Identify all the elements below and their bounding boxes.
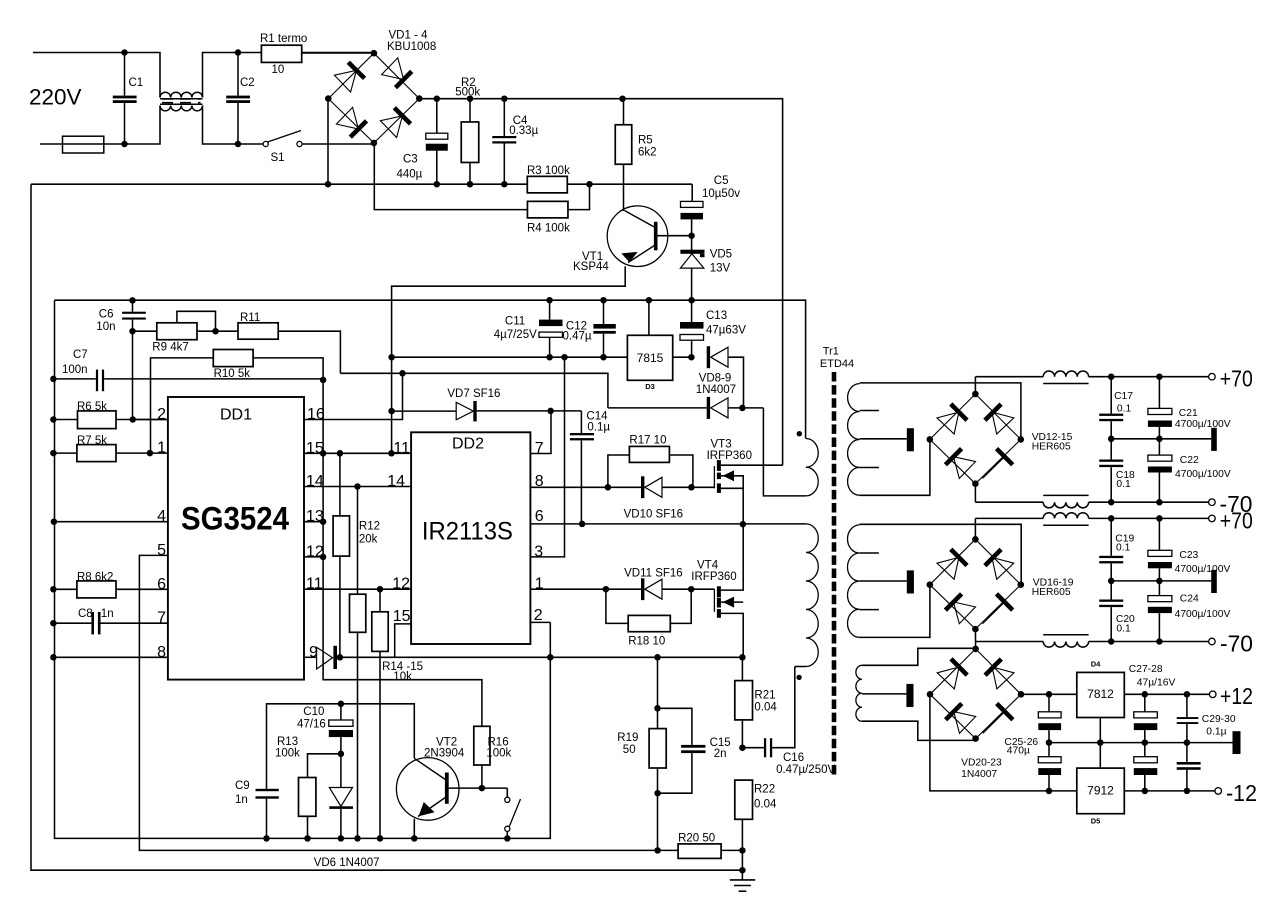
svg-text:1n: 1n [101, 608, 114, 620]
capacitor C3 440u [436, 99, 438, 134]
svg-text:C22: C22 [1180, 455, 1199, 466]
svg-text:7: 7 [157, 610, 166, 627]
resistor R7 5k [53, 452, 77, 454]
resistor R20 50 [658, 849, 679, 851]
node VT1 base [688, 232, 695, 239]
capacitor C14 0.1u [580, 411, 582, 433]
svg-text:C16: C16 [783, 752, 804, 764]
sec2 stub 2 [860, 609, 879, 611]
node R21/C16 [739, 744, 746, 751]
node bus/C8 [50, 620, 57, 627]
resistor R22 0.04 [735, 780, 753, 819]
inductor L4 [1043, 513, 1088, 519]
capacitor C26 470u [1048, 743, 1050, 757]
resistor R1 (termo) [301, 52, 374, 54]
svg-text:1: 1 [535, 576, 544, 593]
svg-text:2: 2 [534, 607, 543, 624]
resistor R19 50 [657, 657, 659, 728]
node mid/C29 [1184, 739, 1191, 746]
wire common rail [55, 300, 806, 438]
resistor R4 100k [374, 144, 527, 210]
svg-text:100k: 100k [486, 747, 511, 759]
node mid2 [1108, 578, 1115, 585]
node common/C11 [546, 297, 553, 304]
bottom rail nodes [263, 835, 270, 842]
svg-text:R3 100k: R3 100k [527, 165, 570, 177]
svg-text:KSP44: KSP44 [573, 261, 609, 273]
svg-text:4700µ/100V: 4700µ/100V [1175, 419, 1231, 430]
wire DD2 pin6 switch node [530, 523, 806, 525]
svg-text:1N4007: 1N4007 [961, 769, 997, 780]
wire AC line top [33, 53, 160, 98]
svg-text:R5: R5 [638, 135, 653, 147]
capacitor C1 [124, 53, 126, 96]
capacitor C29 0.1u [1186, 694, 1188, 717]
sec2 tap bar [907, 570, 914, 593]
node +12/C25 [1046, 691, 1053, 698]
terminal -12 [1215, 788, 1222, 795]
svg-text:4: 4 [157, 508, 166, 525]
svg-text:VD8-9: VD8-9 [699, 372, 732, 384]
svg-text:0.33µ: 0.33µ [509, 125, 538, 137]
node p14/R14 [354, 483, 361, 490]
node mid/7812 [1097, 739, 1104, 746]
svg-text:+12: +12 [1220, 683, 1253, 709]
node common/C12 [600, 297, 607, 304]
node -70b/C20 [1108, 638, 1115, 645]
transistor VT2 2N3904 [396, 758, 459, 821]
wire frame bottom [31, 184, 742, 870]
svg-text:C1: C1 [129, 77, 144, 89]
node R19/C15 top [654, 705, 661, 712]
svg-text:C17: C17 [1114, 391, 1133, 402]
wire pin12 [304, 556, 323, 558]
diode VD6b vertical [340, 754, 342, 788]
svg-text:D4: D4 [1091, 660, 1101, 669]
wire mid rail 2 [1111, 580, 1211, 582]
svg-text:R17 10: R17 10 [629, 434, 666, 446]
wire +70 rail 1 [974, 377, 976, 395]
diode VD8 1N4007 [707, 346, 710, 368]
svg-text:R7 5k: R7 5k [77, 435, 107, 447]
node R19/C15 bottom [654, 790, 661, 797]
node +70a/C21 [1156, 373, 1163, 380]
node C7/R10 net [320, 377, 327, 384]
svg-text:11: 11 [306, 576, 323, 593]
svg-text:0.1µ: 0.1µ [587, 421, 610, 433]
svg-text:13V: 13V [710, 262, 731, 274]
node bus/C7 [50, 376, 57, 383]
resistor R9 4k7 (trimmer) [133, 330, 157, 332]
wire mid rail 1 [1111, 438, 1211, 440]
svg-text:C5: C5 [714, 175, 729, 187]
sec2 stub 1 [860, 552, 879, 554]
resistor R15 10k [379, 589, 381, 612]
inductor L3 [1043, 502, 1088, 508]
svg-text:10n: 10n [96, 321, 115, 333]
capacitor C18 0.1 [1110, 439, 1112, 460]
node VD11/R18L [603, 586, 610, 593]
svg-text:VD7 SF16: VD7 SF16 [447, 388, 500, 400]
svg-text:C9: C9 [235, 780, 250, 792]
resistor R18 10 [606, 589, 628, 623]
inductor L5 [1043, 642, 1088, 648]
svg-text:R1 termo: R1 termo [260, 33, 307, 45]
svg-text:1N4007: 1N4007 [696, 384, 736, 396]
ground bar out1 [1211, 428, 1217, 451]
sec2 tail bottom [860, 585, 930, 638]
node +15/VT1 emitter [388, 354, 395, 361]
sec2 tail top [860, 524, 1022, 584]
wire DD2 pin3 up [530, 357, 564, 557]
wire left bus [55, 300, 551, 838]
svg-text:4µ7/25V: 4µ7/25V [494, 329, 537, 341]
node VD10/R17R/VT3gate [688, 484, 695, 491]
node frame/ground [739, 867, 746, 874]
node +15/pin3 DD2 [561, 354, 568, 361]
svg-text:R22: R22 [754, 784, 775, 796]
sec1 tail bottom [860, 439, 930, 495]
svg-text:100k: 100k [275, 747, 300, 759]
svg-text:VD11 SF16: VD11 SF16 [624, 568, 683, 580]
capacitor C30 0.1u [1186, 743, 1188, 762]
Tr1 primary main winding [806, 524, 818, 667]
node +12/C27 [1142, 691, 1149, 698]
node switch node [740, 521, 747, 528]
choke L1 winding bottom [160, 106, 203, 111]
wire DD2 pin15 down [395, 624, 411, 657]
node mid1 [1108, 436, 1115, 443]
node p11/R15 [377, 586, 384, 593]
svg-text:IR2113S: IR2113S [422, 518, 513, 546]
node +15/C11 [546, 354, 553, 361]
wire pin5 [139, 555, 657, 850]
wire pin2 [133, 419, 168, 421]
node base/R16 [479, 785, 486, 792]
svg-text:500k: 500k [455, 87, 480, 99]
wire C6 to R6/pin2 [132, 331, 134, 419]
svg-text:DD1: DD1 [220, 407, 252, 424]
svg-text:3: 3 [534, 543, 543, 560]
capacitor C8 1n [53, 622, 91, 624]
svg-text:2N3904: 2N3904 [424, 747, 465, 759]
svg-text:47µ63V: 47µ63V [706, 325, 746, 337]
node VD7 line left [388, 408, 395, 415]
resistor R13 100k [308, 754, 341, 778]
wire AC top over choke [203, 53, 375, 98]
node mid/C27 [1142, 739, 1149, 746]
svg-text:D5: D5 [1091, 817, 1101, 826]
svg-text:4700µ/100V: 4700µ/100V [1175, 469, 1231, 480]
node -70a/C22 [1156, 499, 1163, 506]
svg-text:0.1µ: 0.1µ [1206, 727, 1226, 738]
node HV+/R2 [467, 95, 474, 102]
capacitor C10 47/16 [340, 704, 342, 720]
svg-text:1: 1 [157, 440, 166, 457]
capacitor C2 [237, 53, 239, 96]
regulator D4 7812 [1077, 672, 1125, 717]
wire DD2 pin2 down [530, 621, 550, 623]
svg-text:ETD44: ETD44 [820, 358, 854, 370]
Tr1 secondary winding 3 [856, 665, 862, 721]
capacitor C27 47u/16V [1144, 694, 1146, 712]
svg-text:C8: C8 [78, 608, 93, 620]
transistor VT4 IRFP360 [713, 589, 715, 612]
svg-text:6k2: 6k2 [638, 147, 657, 159]
sec3 tail top [862, 648, 976, 665]
wire 7812 gnd pin [1099, 718, 1101, 743]
svg-text:R21: R21 [754, 690, 775, 702]
node 657/R19 [654, 654, 661, 661]
resistor R5 6k2 [623, 99, 625, 125]
node bus/R6 [50, 416, 57, 423]
svg-text:8: 8 [157, 644, 166, 661]
node bus/R7 [50, 450, 57, 457]
wire pin4 [54, 521, 168, 523]
ground symbol [741, 870, 743, 880]
node +70a/C17 [1108, 373, 1115, 380]
svg-text:C29-30: C29-30 [1202, 714, 1236, 725]
choke L1 core [162, 98, 201, 100]
svg-text:0.04: 0.04 [754, 701, 777, 713]
regulator D5 7912 [1077, 768, 1125, 814]
svg-text:R8 6k2: R8 6k2 [77, 572, 113, 584]
svg-text:7815: 7815 [637, 351, 664, 365]
svg-text:VD6 1N4007: VD6 1N4007 [314, 857, 380, 869]
terminal +12 [1209, 691, 1216, 698]
svg-text:SG3524: SG3524 [181, 501, 289, 537]
svg-text:2: 2 [157, 406, 166, 423]
svg-text:R9 4k7: R9 4k7 [152, 342, 188, 354]
node bus/pin8 [50, 654, 57, 661]
node bus/R8 [50, 586, 57, 593]
svg-text:R18 10: R18 10 [628, 636, 665, 648]
svg-text:0.04: 0.04 [754, 799, 777, 811]
wire R11 feedback line [340, 373, 608, 408]
svg-text:7812: 7812 [1087, 687, 1114, 701]
svg-text:12: 12 [392, 576, 410, 593]
sec3 tap bar [906, 684, 913, 707]
svg-text:6: 6 [535, 508, 544, 525]
wire pin8 [53, 656, 167, 658]
node -70b/C24 [1156, 638, 1163, 645]
wire HV+ rail [419, 99, 782, 466]
capacitor C15 2n [658, 708, 692, 745]
sec1 center tap [860, 438, 907, 440]
node mid2/C23 [1156, 578, 1163, 585]
resistor R10 5k [213, 350, 253, 367]
capacitor C6 10n [132, 300, 134, 311]
capacitor C11 4u7/25V [549, 300, 551, 319]
node +12/C29 [1184, 691, 1191, 698]
svg-text:C24: C24 [1180, 594, 1199, 605]
svg-text:11: 11 [393, 440, 410, 457]
svg-text:Tr1: Tr1 [823, 346, 839, 358]
capacitor C5 10u50v [691, 184, 693, 201]
svg-text:2n: 2n [714, 748, 727, 760]
node HV+/C3 [434, 95, 441, 102]
inductor L2 [1043, 371, 1088, 377]
choke L1 winding top [160, 92, 203, 97]
resistor R6 5k [53, 419, 77, 421]
svg-text:220V: 220V [29, 85, 82, 110]
node pin9/R12 [337, 654, 344, 661]
svg-text:R13: R13 [277, 736, 298, 748]
node 657/DD2pin2 [547, 654, 554, 661]
svg-text:C7: C7 [73, 349, 88, 361]
wire AC line bottom [40, 106, 160, 145]
capacitor C25 470u [1048, 694, 1050, 712]
svg-text:VD10 SF16: VD10 SF16 [624, 508, 683, 520]
node 7815 in / VD8 / C13 [688, 354, 695, 361]
resistor R11 [238, 323, 278, 339]
svg-text:47/16: 47/16 [297, 719, 326, 731]
node 657/R21 [739, 654, 746, 661]
wire AC bottom over choke [203, 106, 266, 145]
wire pin14 to DD2 pin14 [304, 486, 411, 488]
capacitor C20 0.1 [1110, 581, 1112, 600]
sec3 center tap [862, 693, 907, 695]
svg-text:0.1: 0.1 [1117, 403, 1132, 414]
resistor R14 10k [357, 487, 359, 595]
svg-text:0.1: 0.1 [1116, 623, 1131, 634]
wire ground stub [741, 850, 743, 870]
svg-text:VT3: VT3 [711, 438, 732, 450]
capacitor C28 47u/16V [1144, 743, 1146, 757]
phase dot primary [796, 675, 801, 680]
wire +12 rail [1020, 693, 1076, 695]
bridge rectifier VD16-19 HER605 [930, 539, 976, 584]
node common/VD5/C13 [688, 297, 695, 304]
svg-text:10µ50v: 10µ50v [702, 188, 740, 200]
node -12/C30 [1184, 788, 1191, 795]
svg-text:R11: R11 [240, 312, 260, 324]
svg-text:C3: C3 [403, 153, 418, 165]
svg-text:10k: 10k [393, 671, 412, 683]
svg-text:VD20-23: VD20-23 [961, 758, 1002, 769]
svg-text:HER605: HER605 [1032, 442, 1071, 453]
svg-text:7: 7 [535, 440, 544, 457]
node AC bottom / C2 [235, 141, 242, 148]
sec1 tail top [860, 383, 1021, 440]
capacitor C4 0.33u [503, 99, 505, 136]
capacitor C16 0.47u/250V [742, 747, 764, 749]
node +15/C12 [600, 354, 607, 361]
capacitor C7 100n [53, 378, 96, 380]
svg-text:-70: -70 [1220, 630, 1253, 656]
capacitor C24 4700u/100V [1158, 581, 1160, 596]
svg-text:16: 16 [307, 406, 325, 423]
wire pin11 to DD2 pin12 [304, 588, 411, 590]
svg-text:+70: +70 [1220, 507, 1253, 533]
wire DD2 pin8 line [530, 486, 641, 488]
diode VD6 at pin9 [304, 656, 317, 658]
node HV-/C4 [501, 181, 508, 188]
sec1 stub 2 [860, 467, 879, 469]
node R3/R4/C5 [586, 181, 593, 188]
resistor R8 6k2 [53, 588, 77, 590]
svg-text:R12: R12 [359, 521, 380, 533]
svg-text:C6: C6 [99, 308, 114, 320]
sec1 tap bar [907, 428, 914, 451]
svg-text:VD1 - 4: VD1 - 4 [389, 30, 429, 42]
svg-text:C2: C2 [240, 77, 255, 89]
wire VT1 base to C5/VD5 [658, 235, 692, 237]
diode VD10 SF16 [641, 476, 644, 498]
svg-text:C23: C23 [1179, 550, 1198, 561]
wire +70 rail 2 [974, 518, 976, 539]
svg-text:R6 5k: R6 5k [77, 401, 107, 413]
node AC top / C1 [121, 49, 128, 56]
terminal -70 a [1209, 499, 1216, 506]
capacitor C21 4700u/100V [1158, 377, 1160, 409]
ground bar out2 [1211, 570, 1217, 593]
sec2 center tap [860, 580, 907, 582]
terminal +70 b [1209, 515, 1216, 522]
node VD9 anode [739, 405, 746, 412]
wire pin15 to DD2 pin11 [304, 452, 411, 454]
svg-text:-12: -12 [1226, 780, 1257, 806]
bridge rectifier VD20-23 1N4007 [930, 649, 976, 694]
wire VT1em vert to VD7 [391, 357, 393, 453]
wire pin13 [304, 521, 323, 523]
terminal +70 a [1209, 373, 1216, 380]
svg-text:50: 50 [623, 744, 636, 756]
bridge rectifier VD12-15 HER605 [930, 394, 976, 439]
svg-text:KBU1008: KBU1008 [387, 41, 436, 53]
svg-text:C21: C21 [1179, 408, 1198, 419]
wire bridge2 bottom to bridge3 top [974, 629, 976, 648]
node bus/pin4 [51, 518, 58, 525]
capacitor C13 47u63V [691, 300, 693, 322]
node HV-/R2 [467, 181, 474, 188]
svg-text:100n: 100n [62, 364, 88, 376]
wire source rail 657 [340, 656, 743, 658]
node R7/R10 [147, 450, 154, 457]
resistor R21 0.04 [741, 657, 743, 680]
wire -70 rail 1 [974, 484, 976, 503]
svg-text:C11: C11 [505, 315, 525, 327]
svg-text:4700µ/100V: 4700µ/100V [1175, 564, 1231, 575]
svg-text:VD5: VD5 [710, 249, 732, 261]
capacitor C22 4700u/100V [1158, 439, 1160, 455]
capacitor C23 4700u/100V [1158, 518, 1160, 550]
svg-text:VT4: VT4 [697, 560, 719, 572]
phase dot aux [797, 431, 802, 436]
sec3 tail bottom [862, 721, 976, 740]
svg-text:10: 10 [272, 64, 285, 76]
svg-text:S1: S1 [271, 152, 285, 164]
svg-text:IRFP360: IRFP360 [691, 571, 736, 583]
node p15/R10net [320, 450, 327, 457]
bridge rectifier VD1-4 KBU1008 [328, 53, 374, 98]
switch S1 [263, 141, 268, 146]
node HV-/C3 [434, 181, 441, 188]
fuse FU1 [63, 136, 104, 153]
svg-text:R19: R19 [617, 732, 638, 744]
transistor VT1 KSP44 [607, 206, 668, 267]
resistor R16 100k [474, 726, 490, 765]
svg-text:IRFP360: IRFP360 [707, 450, 752, 462]
wire +15 rail [392, 356, 628, 358]
node -12/C28 [1142, 788, 1149, 795]
svg-text:R4 100k: R4 100k [527, 223, 570, 235]
svg-text:14: 14 [306, 473, 324, 490]
Tr1 secondary winding 2 [847, 525, 859, 637]
wire -70 rail 2 [975, 641, 1043, 643]
wire C9/C10/VT2 top line [267, 704, 415, 789]
capacitor C17 0.1 [1110, 377, 1112, 414]
